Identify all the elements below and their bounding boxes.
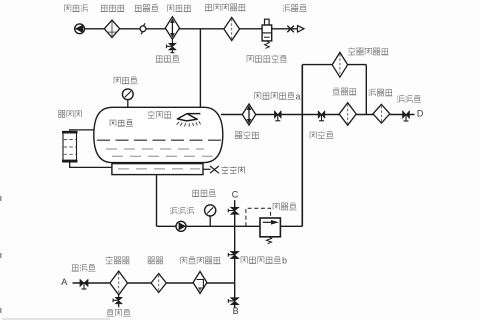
wire tray drop <box>156 175 158 227</box>
label sampling-valve <box>107 309 131 316</box>
heater <box>242 104 255 125</box>
label vacuum-breaker <box>247 55 287 62</box>
oil outlet valve <box>80 279 88 289</box>
label oil-pump <box>170 207 193 214</box>
label cooler <box>168 5 192 12</box>
label safety-valve <box>273 203 297 210</box>
dry filter <box>224 17 240 40</box>
valve under C <box>228 207 239 214</box>
temp point <box>203 166 219 173</box>
svg-text:D: D <box>417 109 424 119</box>
label level-gauge <box>58 110 82 117</box>
cooler <box>165 17 179 40</box>
label special-filter <box>348 48 389 55</box>
check valve <box>140 23 146 34</box>
label water-separator <box>101 5 125 11</box>
svg-text:a: a <box>296 91 301 101</box>
wire top main line <box>84 28 297 30</box>
label check-valve <box>135 5 159 12</box>
wire C-B line <box>234 200 236 307</box>
label vacuum-pump <box>65 5 88 12</box>
label dry-filter <box>205 4 246 11</box>
pilot dashed line <box>246 208 271 226</box>
wire bottom-left line <box>73 282 235 284</box>
metal filter <box>193 272 207 294</box>
backflush lock valve a <box>274 111 281 121</box>
arrow outlet top right <box>298 26 305 32</box>
label temp-point <box>222 166 245 173</box>
label metal-filter <box>181 257 221 264</box>
level gauge stubs <box>69 130 71 132</box>
vacuum breaker valve <box>262 19 272 48</box>
label fine-filter-2 <box>148 257 164 264</box>
backflush lock valve b <box>228 251 239 258</box>
label drain-valve-top <box>156 55 180 62</box>
wire down to tank sprayer <box>199 29 201 114</box>
label coarse-filter <box>369 89 393 96</box>
vacuum gauge <box>122 89 133 108</box>
air inlet valve <box>287 26 294 33</box>
level gauge <box>62 132 78 163</box>
wire bypass <box>301 65 303 227</box>
label oil-outlet-valve <box>72 264 96 271</box>
svg-text:B: B <box>233 306 239 316</box>
coarse filter <box>373 104 390 123</box>
label node-D <box>417 109 424 119</box>
label lock-valve-b <box>241 255 287 265</box>
ultra fine filter <box>110 271 128 295</box>
label node-C <box>232 190 239 200</box>
vacuum pump <box>75 24 85 34</box>
label ultra-fine-filter <box>106 256 130 263</box>
bottom tray <box>112 164 203 175</box>
drain gauge <box>205 205 216 227</box>
wire right main line <box>221 114 415 116</box>
svg-text:A: A <box>61 277 67 287</box>
safety valve <box>260 218 280 244</box>
label drain-valve-bottom <box>192 190 216 197</box>
label oil-inlet-valve <box>397 96 421 103</box>
vacuum tank <box>94 107 223 162</box>
svg-text:C: C <box>232 190 239 200</box>
label selector-valve <box>310 131 334 138</box>
label lock-valve-a <box>255 91 301 101</box>
label vacuum-gauge <box>114 77 138 84</box>
label heater <box>235 131 259 138</box>
label node-B <box>233 306 239 316</box>
valve above B <box>228 298 239 305</box>
sampling valve <box>113 295 122 307</box>
oil inlet valve <box>403 111 410 122</box>
fine filter <box>339 103 356 126</box>
wire bottom line <box>157 225 261 227</box>
scan artifacts <box>1 196 110 319</box>
label sprayer <box>148 111 172 118</box>
oil pump <box>176 221 186 231</box>
fine filter 2 <box>151 274 166 293</box>
label node-A <box>61 277 67 287</box>
label tank <box>110 120 133 127</box>
label fine-filter <box>333 88 357 95</box>
water separator <box>104 20 119 37</box>
cooler drain valve (fang-shui-fa) <box>167 39 177 52</box>
svg-text:b: b <box>282 255 287 265</box>
liquid level dashes <box>97 139 223 141</box>
special filter <box>332 52 347 77</box>
selector valve <box>318 111 325 121</box>
label air-inlet-valve <box>283 5 307 12</box>
sprayer <box>177 114 201 127</box>
